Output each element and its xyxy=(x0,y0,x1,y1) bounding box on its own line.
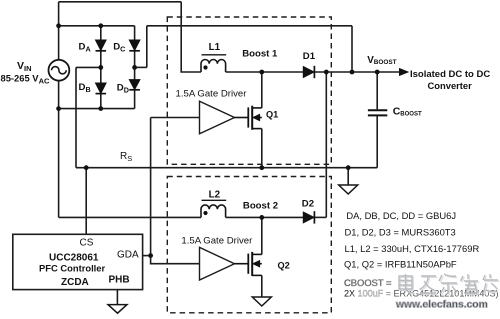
node Q2 drain on boost2 rail xyxy=(259,215,264,220)
svg-text:ZCDA: ZCDA xyxy=(61,277,89,288)
wire CS drop xyxy=(85,168,87,235)
L1 phase dot xyxy=(203,65,207,69)
dashed boost1 box xyxy=(167,17,331,164)
wire boost2 feed rail to L2 xyxy=(59,216,201,218)
transistor Q2 xyxy=(235,252,262,276)
wire AC bottom vertical xyxy=(58,81,60,109)
gate driver U1 triangle xyxy=(200,101,235,134)
svg-text:1.5A Gate Driver: 1.5A Gate Driver xyxy=(176,89,248,100)
wire bottom rail xyxy=(59,108,135,110)
wire bridge output drop to VBOOST rail xyxy=(351,26,353,72)
diode DB xyxy=(96,83,107,94)
wire driver1 input xyxy=(151,117,200,119)
wire PHB stem xyxy=(116,290,118,305)
svg-text:D2: D2 xyxy=(302,199,314,210)
wire GDA riser xyxy=(150,118,152,256)
inductor L1 xyxy=(201,59,226,72)
svg-text:Converter: Converter xyxy=(428,80,473,91)
svg-text:RS: RS xyxy=(120,151,132,163)
svg-text:Isolated DC to DC: Isolated DC to DC xyxy=(410,69,490,80)
node ground tap on RS rail xyxy=(346,165,351,170)
wire DB bottom xyxy=(100,93,102,108)
diode D2 xyxy=(303,211,314,223)
node DC-DD midpoint xyxy=(132,65,137,70)
diode DA xyxy=(96,40,107,51)
node D2 riser on VBOOST rail xyxy=(324,70,329,75)
arrow to isolated converter xyxy=(400,69,409,76)
AC source VIN circle xyxy=(49,60,70,81)
wire D1 cathode rail to arrow xyxy=(314,71,400,73)
L1 underline xyxy=(202,54,227,56)
wire L1 riser and L1 left lead xyxy=(181,2,201,72)
L2 underline xyxy=(202,199,227,201)
svg-text:CBOOST: CBOOST xyxy=(393,106,422,118)
wire ground stem mid-right xyxy=(347,168,349,185)
ground (PHB) xyxy=(108,305,127,314)
diode D1 xyxy=(303,66,314,78)
wire DD bottom xyxy=(134,90,136,109)
svg-text:GDA: GDA xyxy=(117,250,139,261)
wire bridge output rail to VBOOST xyxy=(147,25,352,27)
gate driver U2 triangle xyxy=(200,247,235,280)
L2 phase dot xyxy=(203,211,207,215)
watermark hanzi block xyxy=(399,274,499,295)
wire AC top vertical xyxy=(58,2,60,60)
wire GDA jog to driver2 input xyxy=(151,256,200,264)
svg-text:DC: DC xyxy=(113,42,125,54)
svg-text:L1, L2 = 330uH, CTX16-17769R: L1, L2 = 330uH, CTX16-17769R xyxy=(345,243,480,254)
node Q1 source on RS rail xyxy=(259,165,264,170)
svg-text:D1, D2, D3 = MURS360T3: D1, D2, D3 = MURS360T3 xyxy=(345,227,456,238)
wire bridge left midpoint stub xyxy=(76,66,101,68)
node DA-DB midpoint xyxy=(98,65,103,70)
svg-text:DA, DB, DC, DD = GBU6J: DA, DB, DC, DD = GBU6J xyxy=(346,210,456,221)
svg-text:Q1: Q1 xyxy=(266,110,278,120)
ground (Q2 source) xyxy=(252,297,271,306)
watermark white wash xyxy=(352,272,499,299)
node CS tap on RS rail xyxy=(84,165,89,170)
wire boost1 rail L1 to D1 xyxy=(226,71,304,73)
node GDA junction xyxy=(148,253,153,258)
svg-text:DD: DD xyxy=(117,83,129,95)
svg-text:Boost 2: Boost 2 xyxy=(243,201,278,212)
wire AC-top rail to bridge tops xyxy=(59,25,135,27)
node bypass riser on VBOOST rail xyxy=(350,70,355,75)
svg-text:DB: DB xyxy=(79,82,91,94)
svg-text:VIN: VIN xyxy=(17,60,32,73)
svg-text:Q1, Q2 = IRFB11N50APbF: Q1, Q2 = IRFB11N50APbF xyxy=(344,259,457,270)
svg-text:DA: DA xyxy=(79,42,91,54)
svg-text:D1: D1 xyxy=(303,51,316,62)
node AC top junction xyxy=(56,23,61,28)
wire GDA pin stub xyxy=(143,255,151,257)
wire CBOOST bottom lead xyxy=(376,115,378,168)
wire Q2 drain riser xyxy=(261,217,263,254)
svg-text:VBOOST: VBOOST xyxy=(367,55,396,66)
svg-text:PHB: PHB xyxy=(109,275,130,286)
svg-text:CS: CS xyxy=(80,238,94,249)
wire left midpoint riser down xyxy=(75,67,77,167)
wire Q1 drain riser xyxy=(261,72,263,108)
wire top line from AC top to L1 riser xyxy=(59,1,182,3)
svg-text:L2: L2 xyxy=(209,190,221,201)
svg-text:PFC Controller: PFC Controller xyxy=(39,263,105,274)
wire DC-DD column middle xyxy=(134,51,136,80)
node VBOOST xyxy=(375,70,380,75)
UCC28061 controller box U3 xyxy=(13,234,143,289)
svg-text:www.elecfans.com: www.elecfans.com xyxy=(395,300,488,311)
node DB cathode junction xyxy=(98,106,103,111)
svg-text:L1: L1 xyxy=(209,42,221,53)
wire CBOOST top lead xyxy=(376,72,378,109)
wire boost2 rail L2 to D2 xyxy=(226,216,304,218)
transistor Q1 xyxy=(235,106,262,130)
node DA anode junction xyxy=(98,23,103,28)
wire AC column down to boost2 rail xyxy=(58,109,60,218)
node Q1 drain on boost1 rail xyxy=(259,70,264,75)
diode DD xyxy=(129,80,140,90)
diode DC xyxy=(129,40,140,51)
wire DA-DB column middle xyxy=(100,51,102,83)
wire DC top drop xyxy=(134,26,136,40)
svg-text:Boost 1: Boost 1 xyxy=(242,49,278,60)
wire DA top drop xyxy=(100,26,102,40)
capacitor CBOOST xyxy=(368,110,387,115)
ground (mid-right) xyxy=(339,185,358,194)
svg-text:85-265 VAC: 85-265 VAC xyxy=(1,73,50,86)
wire D2 cathode stub xyxy=(314,216,326,218)
wire bridge right midpoint stub xyxy=(135,66,147,68)
inductor L2 xyxy=(201,205,226,218)
node AC bottom junction xyxy=(56,106,61,111)
wire Q2 source drop to ground xyxy=(261,275,263,297)
svg-text:1.5A Gate Driver: 1.5A Gate Driver xyxy=(181,236,253,247)
wire bridge output riser xyxy=(146,26,148,68)
wire Q1 source drop xyxy=(261,129,263,168)
wire D2 cathode riser to VBOOST rail xyxy=(325,72,327,217)
svg-text:Q2: Q2 xyxy=(278,261,290,271)
wire RS return rail xyxy=(76,167,377,169)
dashed boost2 box xyxy=(167,177,331,313)
